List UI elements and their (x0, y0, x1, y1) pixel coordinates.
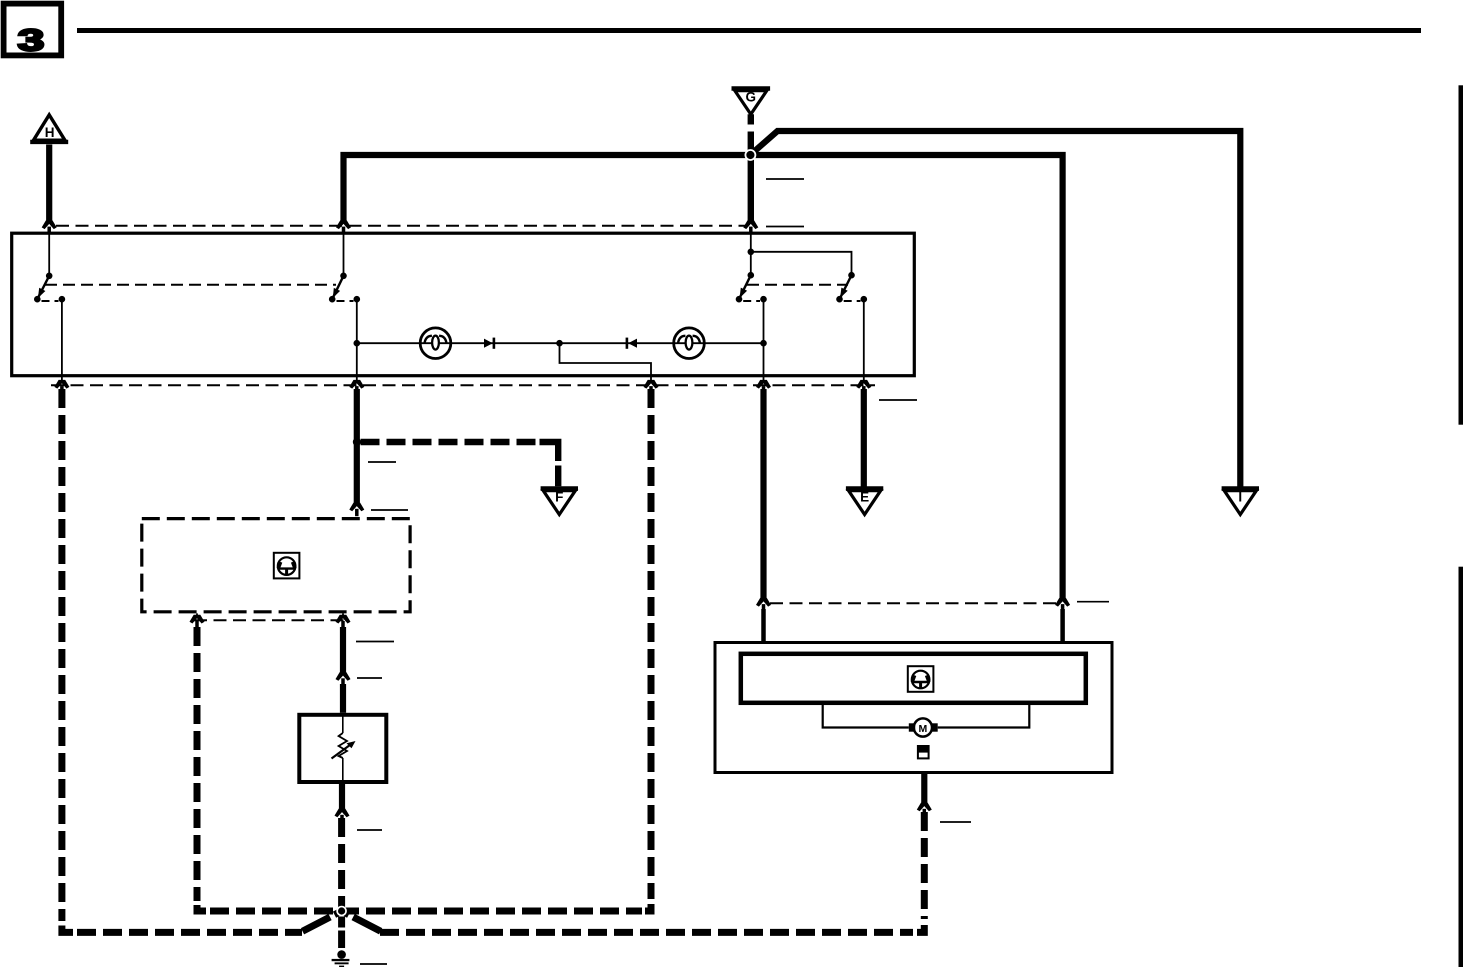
sub wire from center node down (560, 343, 652, 381)
page edge bar lower (1459, 567, 1463, 967)
svg-text:I: I (1238, 490, 1242, 505)
label line L11 (360, 963, 387, 965)
label line L4 (368, 461, 396, 463)
motor M (909, 718, 938, 736)
node on lamp wire left (354, 340, 361, 347)
ground bus 2 corner left (62, 926, 73, 933)
wire into resistor box (thick) (340, 684, 346, 713)
wire junction to switch (thick) (748, 158, 754, 221)
ground wire: lamp return down (thick dashed) (648, 389, 655, 899)
steering column switch box (dashed) (142, 519, 410, 612)
svg-text:H: H (45, 125, 55, 140)
label line L2 (766, 226, 804, 228)
connector arrow A12 (336, 672, 351, 686)
variable resistor symbol (332, 715, 356, 782)
connector triangle F (541, 489, 578, 515)
connector arrow A9 (349, 503, 364, 517)
connector boundary dashed line below steering box (194, 619, 344, 621)
diode D1 (484, 338, 495, 349)
connector arrow A13 (335, 809, 350, 823)
svg-text:G: G (746, 90, 757, 105)
wire to connector F (thick dashed) (361, 439, 537, 445)
ground bus 2 (thick dashed) left part (77, 929, 302, 936)
ground bus 2 (thick dashed) right part (380, 929, 913, 936)
ground bus 2 corner right (917, 925, 924, 932)
ground bus 1 (thick dashed) (210, 908, 642, 915)
connector triangle I (1222, 489, 1259, 515)
junction node (solder ring) (745, 149, 757, 161)
ground symbol (332, 950, 350, 967)
connector boundary dashed line (top) (56, 225, 745, 227)
switch link dashed (S1-S2) (45, 284, 336, 286)
steering wheel icon right (908, 666, 934, 692)
lamp 1 (420, 328, 451, 359)
label line L6 (356, 641, 394, 643)
wire feed switch S1 (thin) (48, 227, 50, 276)
svg-text:3: 3 (18, 22, 45, 57)
connector arrow A7 (756, 380, 771, 394)
stub wires below steering box (196, 613, 198, 617)
wire below resistor (thick) (339, 784, 345, 809)
ground junction diagonal left (302, 911, 342, 932)
ground wire below resistor (thick dashed) (338, 818, 345, 911)
ground wire: motor return down (thick dashed) (921, 812, 928, 919)
ground wire: steering box out down (thick dashed) (194, 627, 201, 901)
label line L5 (371, 509, 408, 511)
resistor box (299, 715, 386, 782)
connector arrow A1 (42, 220, 57, 234)
connector arrow A11 (336, 615, 351, 629)
label line L3 (879, 399, 917, 401)
switch S1 (34, 273, 65, 382)
wire S4 out to E (thick) (861, 389, 867, 487)
connector boundary dashed line above motor box (770, 602, 1056, 604)
wire S3 out (thick) (760, 389, 766, 599)
switch link dashed (S3-S4) (747, 284, 848, 286)
connector arrow A10 (190, 615, 205, 629)
connector arrow A15 (1055, 598, 1070, 612)
switch S3 (736, 272, 767, 381)
wire below motor box (thick) (921, 774, 927, 804)
ground drop (338, 917, 345, 949)
stub wires into motor box (761, 609, 766, 643)
ground wire: S1 out down (thick dashed) (58, 389, 65, 921)
top rule (77, 28, 1421, 33)
steering wheel icon left (274, 553, 300, 579)
connector arrow A3 (743, 220, 758, 234)
node on lamp wire right (760, 340, 767, 347)
label line L8 (357, 829, 382, 831)
lamp wire (357, 342, 764, 344)
svg-text:F: F (555, 490, 563, 505)
label line L10 (1077, 601, 1109, 603)
motor switch inner box (741, 654, 1086, 703)
label line L1 (766, 178, 804, 180)
connector arrow A16 (917, 803, 932, 817)
lamp 2 (674, 328, 705, 359)
switch pair feed (748, 227, 852, 275)
connector arrow A4 (54, 380, 69, 394)
wire steering box to resistor (thick) (340, 627, 346, 673)
bus wire B (thick): junction to connector I (753, 131, 1241, 487)
connector arrow A8 (856, 380, 871, 394)
label line L9 (940, 821, 971, 823)
connector arrow A6 (644, 380, 659, 394)
bus wire A (thick): switch S2 feed to right box (344, 155, 1063, 599)
page edge bar upper (1459, 85, 1463, 424)
connector arrow A2 (336, 220, 351, 234)
wire S2 out (thick) (354, 389, 360, 503)
ground junction diagonal right (342, 911, 382, 932)
page number box 3 (4, 4, 62, 58)
node F branch (353, 438, 361, 446)
label line L7 (357, 677, 382, 679)
connector triangle G (732, 89, 771, 115)
node on lamp wire center (556, 340, 563, 347)
wiper motor assembly box (715, 643, 1112, 773)
switch S2 (329, 227, 360, 381)
pump symbol (917, 745, 930, 758)
wire H to switch (thick) (46, 145, 52, 222)
ground junction node (336, 906, 347, 917)
motor wiring (823, 705, 909, 728)
connector boundary dashed line (bottom of switch) (51, 384, 875, 386)
svg-text:M: M (919, 723, 928, 735)
wiper switch box (12, 233, 915, 376)
ground bus 1 corner right (645, 904, 651, 911)
connector arrow A14 (756, 598, 771, 612)
ground bus 1 corner left (197, 905, 206, 911)
connector arrow A5 (349, 380, 364, 394)
wire G to junction (thick dashed) (748, 114, 754, 152)
connector triangle E (846, 489, 883, 515)
switch S4 (836, 272, 867, 381)
svg-text:E: E (860, 490, 869, 505)
connector triangle H (30, 115, 68, 142)
diode D2 (626, 338, 637, 349)
